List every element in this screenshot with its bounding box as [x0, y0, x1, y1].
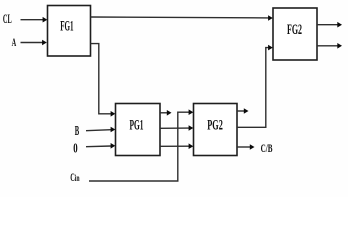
- wire CL input arrow: [21, 17, 48, 23]
- svg-text:PG2: PG2: [207, 117, 223, 134]
- wire PG2 top output short arrow: [237, 108, 249, 114]
- wire FG2 bottom output arrow: [317, 43, 342, 49]
- wire Cin up to PG2 top input: [89, 109, 193, 181]
- wire PG1 middle output to PG2 input: [160, 125, 193, 131]
- svg-text:in: in: [75, 173, 80, 183]
- wire 0 input arrow: [86, 143, 115, 149]
- svg-text:CL: CL: [3, 11, 12, 26]
- block FG1: [48, 6, 91, 57]
- wire PG1 top output short arrow: [160, 110, 172, 116]
- svg-text:FG1: FG1: [60, 17, 73, 34]
- block FG2: [273, 8, 317, 60]
- wire FG1 lower output down to PG1 top input: [91, 44, 116, 117]
- label Cin: [70, 170, 79, 184]
- wire PG2 bottom output C/B arrow: [237, 144, 255, 150]
- block PG2: [194, 104, 238, 156]
- block PG1: [116, 104, 161, 156]
- svg-text:A: A: [12, 37, 17, 49]
- wire B input arrow: [86, 127, 115, 133]
- svg-text:0: 0: [73, 141, 77, 156]
- svg-text:FG2: FG2: [287, 21, 302, 38]
- wire PG1 bottom output to PG2 input: [160, 143, 193, 149]
- svg-text:B: B: [75, 124, 79, 139]
- wire FG1 top output to FG2 input: [91, 15, 273, 21]
- svg-text:C/B: C/B: [261, 141, 273, 155]
- wire PG2 middle output up to FG2 lower input: [237, 45, 273, 128]
- wire FG2 top output arrow: [317, 22, 342, 28]
- wire A input arrow: [21, 40, 47, 46]
- svg-text:PG1: PG1: [130, 117, 144, 134]
